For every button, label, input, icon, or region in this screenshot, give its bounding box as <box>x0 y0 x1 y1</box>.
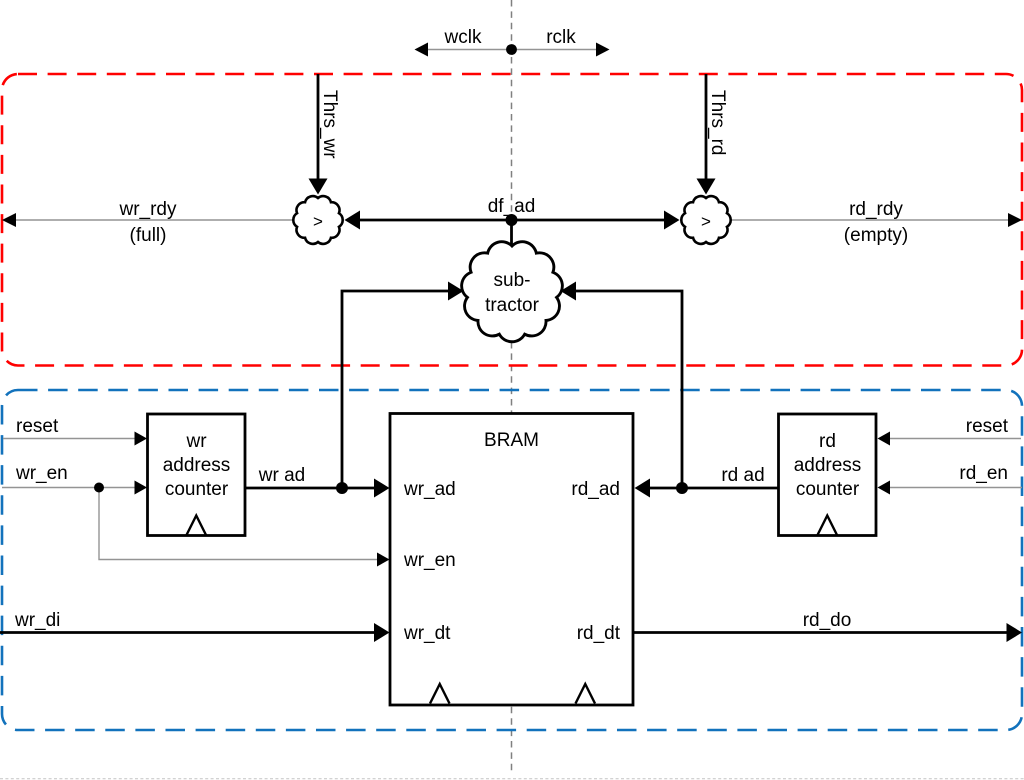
svg-text:rd_en: rd_en <box>959 463 1008 484</box>
svg-text:wr: wr <box>185 431 207 452</box>
node wr ad junction <box>336 482 348 494</box>
svg-text:wr_di: wr_di <box>14 610 60 631</box>
arrowhead wr_en into BRAM <box>377 553 390 567</box>
block BRAM <box>390 414 633 706</box>
svg-text:>: > <box>701 212 711 231</box>
wire rd_en (right) <box>888 487 1022 489</box>
node wclk/rclk junction <box>506 44 517 55</box>
arrowhead rd_en into rd counter <box>878 481 891 495</box>
comparator cloud right <box>681 196 730 244</box>
block wr address counter <box>148 414 246 536</box>
svg-text:tractor: tractor <box>485 295 540 316</box>
wire rd_rdy <box>729 219 1020 221</box>
arrowhead reset into rd counter <box>878 432 891 446</box>
blue dashed region (memory domain) <box>2 390 1022 730</box>
wire reset (right) <box>888 438 1021 440</box>
svg-text:df_ad: df_ad <box>488 196 536 217</box>
svg-text:wr ad: wr ad <box>258 465 305 486</box>
clock triangle rd counter <box>818 516 838 536</box>
wire wr_rdy <box>4 219 295 221</box>
wire rd ad <box>648 487 778 490</box>
wire wr_en branch to BRAM <box>99 488 378 560</box>
node wr_en junction <box>94 483 104 493</box>
wire wclk/rclk <box>416 49 608 51</box>
clock triangle BRAM read <box>576 684 596 704</box>
wire wr ad <box>245 487 376 490</box>
red dashed region (clock comparison domain) <box>2 74 1022 366</box>
svg-text:address: address <box>794 455 862 476</box>
svg-text:rd: rd <box>819 431 836 452</box>
wire wr_di <box>0 631 376 634</box>
svg-text:reset: reset <box>966 416 1009 437</box>
arrowhead rd ad into BRAM <box>635 479 651 498</box>
svg-text:BRAM: BRAM <box>484 430 539 451</box>
svg-text:wr_dt: wr_dt <box>403 623 451 644</box>
svg-text:rd_ad: rd_ad <box>571 479 620 500</box>
wire wr_en (left) <box>2 487 136 489</box>
block rd address counter <box>779 414 877 536</box>
arrowhead wr_en into wr counter <box>135 481 148 495</box>
wire df_ad to left comparator <box>358 219 512 222</box>
node rd ad junction <box>676 482 688 494</box>
clock domain boundary dashed line <box>511 0 513 773</box>
svg-text:wr_ad: wr_ad <box>403 479 456 500</box>
svg-text:wr_en: wr_en <box>15 463 68 484</box>
arrowhead reset into wr counter <box>135 432 148 446</box>
subtractor cloud <box>462 242 563 342</box>
wire df_ad to right comparator <box>512 219 667 222</box>
wire Thrs_wr <box>317 74 320 180</box>
svg-text:wclk: wclk <box>444 27 482 48</box>
arrowhead Thrs_wr <box>309 179 328 195</box>
svg-text:counter: counter <box>165 479 229 500</box>
wire Thrs_rd <box>705 74 708 180</box>
svg-text:address: address <box>163 455 231 476</box>
svg-text:reset: reset <box>16 416 59 437</box>
svg-text:rclk: rclk <box>546 27 576 48</box>
wire subtractor left input (from wr ad) <box>342 291 450 488</box>
arrowhead into left comparator <box>345 211 361 230</box>
arrowhead wclk left <box>415 43 429 57</box>
svg-text:wr_en: wr_en <box>403 550 456 571</box>
wire df_ad down to subtractor <box>510 220 513 248</box>
svg-text:rd_dt: rd_dt <box>577 623 621 644</box>
arrowhead wr ad into BRAM <box>374 479 390 498</box>
clock triangle wr counter <box>187 516 207 536</box>
clock triangle BRAM write <box>430 684 450 704</box>
node df_ad junction <box>506 214 518 226</box>
page edge faint dotted line <box>0 778 1024 780</box>
arrowhead subtractor right input <box>561 282 577 301</box>
wire rd_do <box>633 631 1008 634</box>
svg-text:counter: counter <box>796 479 860 500</box>
svg-text:>: > <box>313 212 323 231</box>
svg-text:(full): (full) <box>130 225 167 246</box>
svg-text:wr_rdy: wr_rdy <box>118 199 177 220</box>
wire reset (left) <box>3 438 136 440</box>
arrowhead Thrs_rd <box>697 179 716 195</box>
svg-text:Thrs_rd: Thrs_rd <box>707 90 728 155</box>
arrowhead wr_di into BRAM <box>374 623 390 642</box>
svg-text:rd_do: rd_do <box>803 610 852 631</box>
svg-text:rd_rdy: rd_rdy <box>849 199 903 220</box>
arrowhead rclk right <box>596 43 610 57</box>
arrowhead into right comparator <box>664 211 680 230</box>
svg-text:Thrs_wr: Thrs_wr <box>319 90 340 159</box>
arrowhead rd_rdy right <box>1008 213 1022 227</box>
svg-text:rd ad: rd ad <box>721 465 764 486</box>
arrowhead wr_rdy left <box>2 213 16 227</box>
svg-text:sub-: sub- <box>494 270 531 291</box>
arrowhead subtractor left input <box>448 282 464 301</box>
wire subtractor right input (from rd ad) <box>574 291 682 488</box>
comparator cloud left <box>293 196 342 244</box>
svg-text:(empty): (empty) <box>844 225 908 246</box>
arrowhead rd_do right <box>1007 623 1023 642</box>
